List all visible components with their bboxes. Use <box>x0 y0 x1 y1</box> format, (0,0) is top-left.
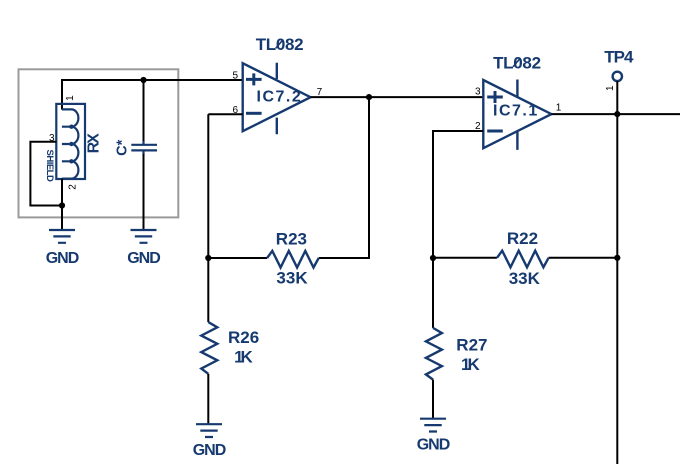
op-amp IC7.2 <box>243 63 311 135</box>
svg-text:3: 3 <box>475 86 481 97</box>
wire IC7.1 output <box>551 113 680 115</box>
test point TP4 <box>613 72 622 81</box>
svg-text:1: 1 <box>556 102 562 113</box>
ground G2 <box>127 230 160 267</box>
junction dot shield/pin2 <box>59 202 65 208</box>
capacitor C* <box>131 141 157 155</box>
wire shield pin3 <box>30 142 62 206</box>
wire capacitor top lead <box>143 80 145 142</box>
ground G1 <box>46 230 79 267</box>
svg-text:33K: 33K <box>276 268 308 287</box>
inductor RX body <box>56 104 85 179</box>
svg-text:GND: GND <box>193 442 226 459</box>
svg-text:R23: R23 <box>276 230 307 249</box>
wire IC7.1 pin2 <box>433 131 483 258</box>
resistor R23 <box>208 257 267 259</box>
shield box <box>19 69 179 217</box>
resistor R27 <box>432 258 434 328</box>
junction dot R22 right <box>614 255 620 261</box>
resistor R22 <box>433 257 617 259</box>
svg-text:33K: 33K <box>509 269 541 288</box>
inductor RX coil <box>62 109 79 178</box>
svg-text:R22: R22 <box>507 229 538 248</box>
junction dot cap top <box>140 77 146 83</box>
svg-text:GND: GND <box>46 250 79 267</box>
svg-text:2: 2 <box>68 184 79 190</box>
op-amp IC7.1 <box>483 80 551 150</box>
svg-text:TP4: TP4 <box>604 48 634 67</box>
svg-text:1: 1 <box>65 95 76 101</box>
svg-text:C*: C* <box>115 139 131 155</box>
wire capacitor bottom lead <box>143 154 145 230</box>
svg-text:SHIELD: SHIELD <box>44 150 55 182</box>
ground G4 <box>417 419 450 454</box>
junction dot R23 left <box>205 255 211 261</box>
svg-text:IC7.2: IC7.2 <box>257 89 303 106</box>
svg-text:IC7.1: IC7.1 <box>493 102 539 119</box>
svg-text:R26: R26 <box>228 328 259 347</box>
inductor coil cusp 1 <box>69 125 73 129</box>
inductor coil cusp 2 <box>69 142 73 146</box>
wire top net inductor pin1 to IC7.2 pin5 <box>62 80 243 110</box>
svg-text:5: 5 <box>232 70 238 81</box>
svg-text:R27: R27 <box>456 336 487 355</box>
wire IC7.2 output to IC7.1 pin3 <box>311 96 484 98</box>
junction dot R22 left <box>430 255 436 261</box>
svg-text:GND: GND <box>127 250 160 267</box>
inductor coil cusp 3 <box>69 159 73 163</box>
svg-text:GND: GND <box>417 436 450 453</box>
svg-text:1: 1 <box>605 85 616 91</box>
wire TP4 down <box>616 81 618 114</box>
junction dot feedback 1 <box>366 94 372 100</box>
svg-text:1K: 1K <box>461 355 480 374</box>
zero slash TL082 IC7.1 <box>513 59 520 67</box>
junction dot output <box>614 111 620 117</box>
wire output vertical long <box>616 114 618 464</box>
wire feedback vertical 1 <box>319 97 369 258</box>
zero slash TL082 IC7.2 <box>276 40 283 48</box>
resistor R26 <box>201 322 217 374</box>
ground G3 <box>193 424 226 459</box>
wire IC7.2 pin6 <box>208 114 242 258</box>
svg-text:1K: 1K <box>234 348 253 367</box>
svg-text:RX: RX <box>85 133 102 154</box>
wire R23 node to R26 <box>207 258 209 322</box>
wire inductor pin2 to gnd <box>61 179 63 230</box>
